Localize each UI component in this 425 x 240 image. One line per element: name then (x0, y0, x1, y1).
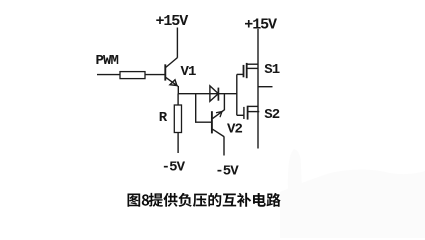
wire PWM input (97, 74, 120, 76)
transistor V2 emitter lead with arrow (213, 110, 225, 119)
mosfet S1 label (264, 62, 280, 78)
wire resistor to V1 base (145, 74, 165, 76)
wire V2 collector to -5V (223, 136, 225, 155)
svg-text:V1: V1 (181, 64, 197, 80)
mosfet S2 label (264, 107, 280, 123)
mosfet S2 gate lead (237, 114, 244, 116)
svg-text:-5V: -5V (162, 159, 186, 175)
svg-text:PWM: PWM (96, 53, 119, 69)
faint background wash bottom-right (280, 170, 425, 239)
wire V2 base connection (196, 94, 212, 123)
node -5V right label (215, 164, 239, 180)
wire output tap (258, 86, 273, 88)
mosfet S1 channel bar (246, 63, 248, 78)
transistor V1 base bar (164, 64, 166, 80)
resistor R-in (input series resistor) (120, 72, 145, 79)
wire V2 emitter up to cathode wire (223, 94, 225, 111)
wire R to -5V (177, 133, 179, 154)
node -5V left label (162, 159, 186, 175)
svg-text:+15V: +15V (244, 17, 277, 34)
resistor R body (174, 105, 181, 133)
transistor V2 label (227, 122, 243, 138)
svg-text:V2: V2 (227, 122, 243, 138)
mosfet S2 channel bar (247, 106, 249, 120)
svg-text:R: R (159, 110, 168, 126)
wire node A down to resistor R (177, 94, 179, 105)
transistor V2 base bar (211, 111, 213, 133)
wire gate feed vertical S1-S2 (236, 74, 238, 115)
transistor V2 collector lead (213, 129, 225, 136)
node +15V right label (244, 17, 277, 34)
mosfet S2 source lead (248, 111, 260, 113)
mosfet S2 drain lead (248, 105, 259, 107)
mosfet S1 drain lead (247, 63, 259, 65)
mosfet S2 gate bar (243, 107, 245, 119)
resistor R label (159, 110, 168, 126)
mosfet S1 source lead (247, 67, 259, 69)
mosfet S1 gate bar (243, 65, 245, 77)
svg-text:+15V: +15V (156, 13, 189, 30)
node +15V left label (156, 13, 189, 30)
svg-text:S1: S1 (264, 62, 280, 78)
transistor V1 emitter lead with arrow (166, 77, 178, 86)
transistor V1 collector lead (166, 58, 178, 68)
caption text: 图8提供负压的互补电路 (128, 193, 281, 207)
svg-text:S2: S2 (264, 107, 280, 123)
node PWM input label (96, 53, 119, 69)
diode D anode triangle (210, 86, 218, 101)
diode D cathode bar (217, 88, 219, 101)
wire V1 emitter down to node A (177, 86, 179, 94)
svg-text:-5V: -5V (215, 164, 239, 180)
wire V1 collector to +15V (176, 28, 178, 58)
transistor V1 label (181, 64, 197, 80)
wire right bus +15V to below S2 (257, 29, 259, 149)
wire node A horizontal to gate bus (178, 93, 237, 95)
mosfet S1 gate lead (237, 73, 243, 75)
